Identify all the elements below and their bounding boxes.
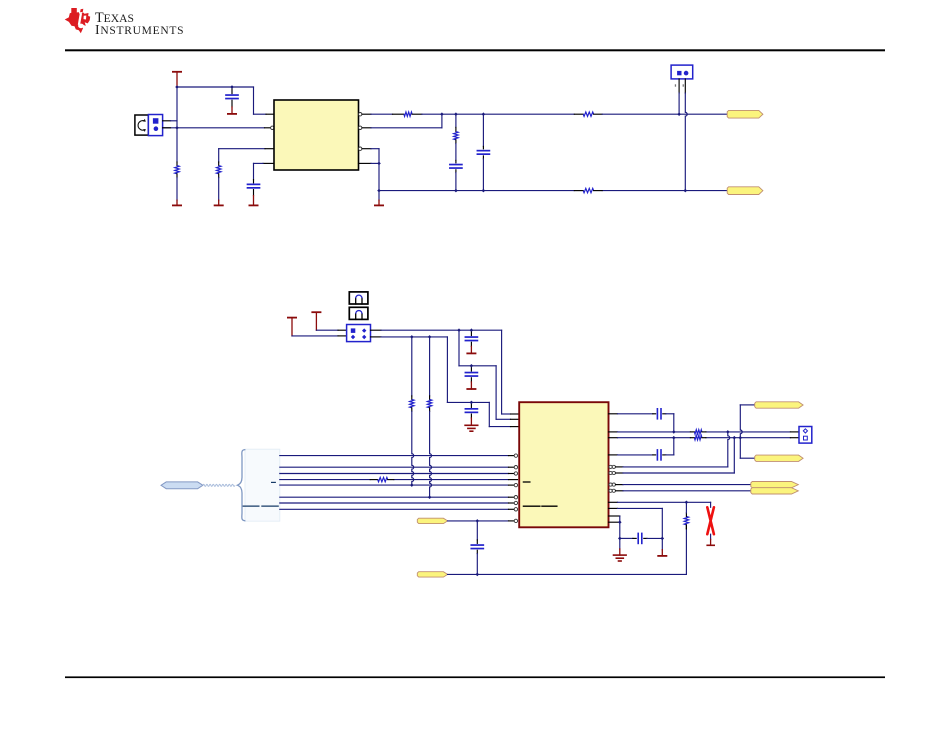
svg-text:INSTRUMENTS: INSTRUMENTS [95, 22, 184, 37]
svg-text:TEXAS: TEXAS [95, 10, 134, 26]
